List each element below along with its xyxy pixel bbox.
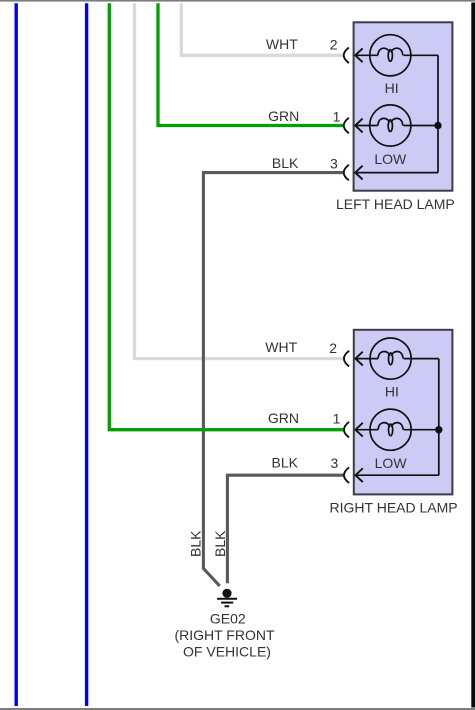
left lamp pin 1 female terminal — [344, 118, 349, 134]
right head lamp box U2 — [354, 330, 453, 495]
right lamp internal wire: HI bulb to right bus — [404, 358, 439, 360]
svg-text:GRN: GRN — [268, 108, 299, 124]
svg-text:WHT: WHT — [265, 339, 297, 355]
right lamp pin 3 female terminal — [344, 467, 349, 483]
right lamp pin 1 connector arrow — [355, 423, 362, 437]
svg-text:BLK: BLK — [188, 530, 204, 557]
left lamp internal right bus wire — [437, 55, 439, 172]
svg-text:OF VEHICLE): OF VEHICLE) — [183, 644, 271, 660]
svg-text:1: 1 — [333, 108, 341, 124]
left lamp pin 2 female terminal — [344, 48, 349, 64]
svg-text:3: 3 — [330, 156, 338, 172]
left lamp pin 3 female terminal — [344, 165, 349, 181]
right lamp internal right bus wire — [438, 359, 440, 476]
left lamp HI bulb B1 — [355, 35, 411, 76]
svg-text:WHT: WHT — [266, 36, 298, 52]
right lamp HI bulb B3 — [356, 338, 412, 379]
right lamp LOW bulb B4 — [356, 409, 412, 450]
svg-text:(RIGHT FRONT: (RIGHT FRONT — [174, 627, 275, 643]
left lamp pin 1 connector arrow — [355, 119, 362, 133]
right lamp pin 1 female terminal — [344, 422, 349, 438]
left lamp internal wire: HI bulb to right bus — [403, 54, 438, 56]
wire GRN to right head lamp pin 1 — [109, 3, 343, 430]
ground symbol bar 1 — [217, 598, 237, 600]
right page edge vertical black line — [471, 3, 475, 708]
wire WHT to right head lamp pin 2 — [135, 3, 344, 358]
wire GRN to left head lamp pin 1 — [158, 3, 344, 125]
svg-text:LOW: LOW — [374, 151, 407, 167]
wire WHT to left head lamp pin 2 — [181, 3, 343, 55]
svg-text:HI: HI — [385, 383, 399, 399]
svg-text:GRN: GRN — [268, 410, 299, 426]
right lamp internal wire: LOW bulb to junction — [404, 429, 439, 431]
svg-text:BLK: BLK — [212, 530, 228, 557]
bottom page border line — [0, 708, 475, 710]
wire BLK from left head lamp pin 3 to ground — [203, 173, 343, 586]
ground symbol bar 2 — [221, 602, 233, 604]
left lamp LOW bulb B2 — [355, 105, 411, 146]
top page border line — [0, 0, 475, 2]
svg-text:BLK: BLK — [272, 454, 299, 470]
svg-text:LOW: LOW — [375, 455, 408, 471]
svg-text:1: 1 — [333, 411, 341, 427]
right lamp pin 3 internal wire — [356, 474, 439, 476]
left lamp internal wire: LOW bulb to junction — [403, 125, 438, 127]
svg-text:HI: HI — [385, 80, 399, 96]
svg-text:GE02: GE02 — [210, 610, 246, 626]
right lamp pin 3 connector arrow — [355, 468, 362, 482]
svg-text:2: 2 — [330, 37, 338, 53]
left lamp pin 3 internal wire — [355, 172, 438, 174]
right lamp pin 2 female terminal — [344, 351, 349, 367]
right lamp junction node — [435, 426, 442, 433]
left lamp junction node — [434, 122, 441, 129]
wire BLU (second vertical run) — [85, 3, 88, 706]
svg-text:3: 3 — [331, 455, 339, 471]
ground symbol bar 3 — [225, 605, 230, 607]
right lamp pin 2 connector arrow — [355, 352, 362, 366]
svg-text:BLK: BLK — [272, 155, 299, 171]
left head lamp box U1 — [354, 22, 453, 190]
svg-text:2: 2 — [329, 340, 337, 356]
svg-text:RIGHT HEAD LAMP: RIGHT HEAD LAMP — [330, 500, 458, 516]
svg-text:LEFT HEAD LAMP: LEFT HEAD LAMP — [336, 196, 455, 212]
wire BLK from right head lamp pin 3 to ground — [227, 475, 343, 583]
wire BLU (left-most vertical run) — [15, 3, 18, 706]
left lamp pin 2 connector arrow — [355, 48, 362, 62]
ground GE02 connection node — [222, 589, 231, 598]
left lamp pin 3 connector arrow — [355, 166, 362, 180]
